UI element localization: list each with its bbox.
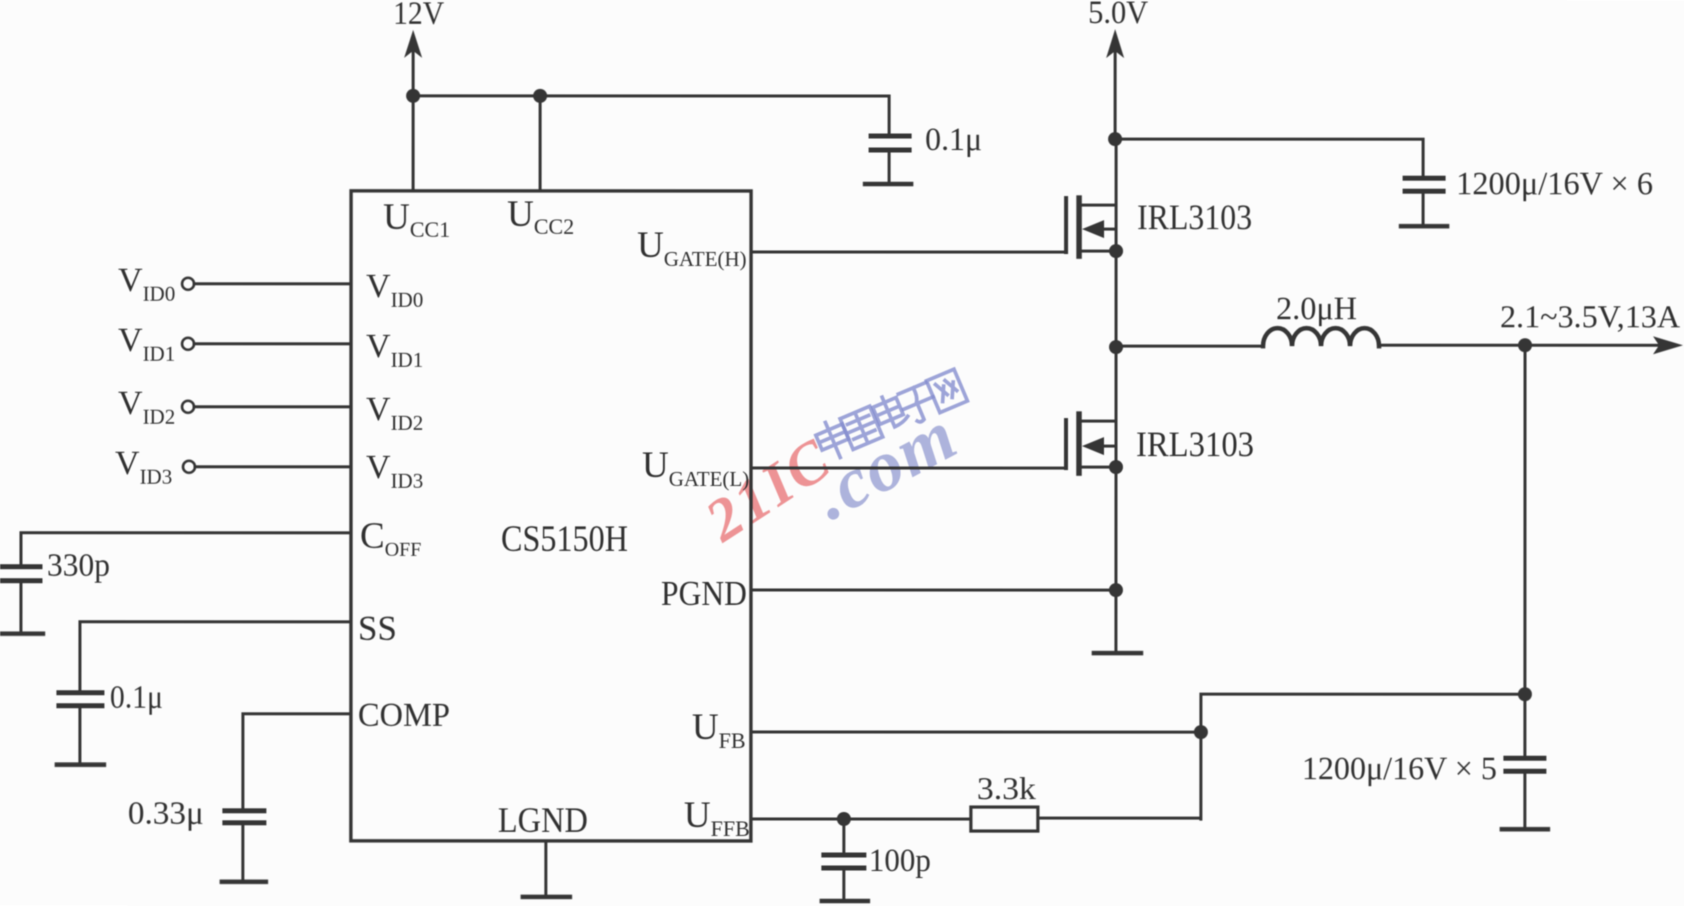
12V arrowhead [404, 30, 422, 58]
wire output node down [1523, 345, 1526, 757]
svg-text:0.33μ: 0.33μ [128, 796, 204, 832]
svg-text:VID2: VID2 [118, 385, 175, 429]
svg-text:VID2: VID2 [366, 391, 423, 435]
wire UGATE(L) to Q2 gate [751, 466, 1066, 469]
terminal circle VID1 [182, 338, 194, 350]
transistor Q1 body stub with arrow [1098, 228, 1116, 231]
capacitor C3 end bar [1502, 827, 1548, 832]
transistor Q2 body stub with arrow [1098, 445, 1116, 448]
svg-text:VID1: VID1 [366, 328, 423, 372]
svg-text:.com: .com [800, 394, 970, 535]
capacitor C1 lower lead [888, 152, 891, 182]
svg-text:100p: 100p [869, 843, 931, 879]
transistor Q1 drain stub [1080, 204, 1116, 207]
transistor Q1 gate bar [1064, 198, 1068, 252]
svg-text:VID3: VID3 [115, 445, 172, 489]
capacitor C3 1200u/16Vx5 plates [1506, 756, 1544, 761]
svg-text:COMP: COMP [358, 697, 450, 734]
capacitor C7 lower lead [842, 870, 845, 899]
IC U1 CS5150H body [351, 191, 751, 841]
svg-text:VID1: VID1 [118, 322, 175, 366]
capacitor C7 end bar [822, 899, 868, 904]
junction dot output node [1518, 338, 1532, 352]
svg-text:SS: SS [358, 609, 397, 648]
resistor R1 3.3k [971, 807, 1038, 831]
capacitor C2 lower lead [1422, 193, 1425, 224]
watermark .com [800, 394, 970, 535]
ground bar LGND [523, 895, 570, 900]
capacitor C4 lower lead [19, 583, 22, 632]
transistor Q1 IRL3103 drain-source vertical [1115, 139, 1118, 347]
junction dot 12V/UCC1 [406, 89, 420, 103]
svg-text:UCC1: UCC1 [383, 197, 450, 242]
wire 5V rail to C2 [1115, 139, 1423, 176]
terminal circle VID0 [182, 278, 194, 290]
capacitor C2 end bar [1401, 224, 1447, 229]
junction dot UFB junction [1194, 725, 1208, 739]
capacitor C7 100p plates [824, 852, 864, 857]
capacitor C2 1200u/16Vx6 plates [1405, 176, 1443, 181]
svg-text:UCC2: UCC2 [507, 194, 574, 239]
wire UFB [751, 730, 1201, 733]
svg-text:IRL3103: IRL3103 [1136, 424, 1254, 464]
svg-text:UGATE(L): UGATE(L) [642, 445, 749, 491]
ground bar power ground [1094, 651, 1141, 656]
svg-text:VID0: VID0 [118, 262, 175, 306]
output arrowhead [1653, 336, 1683, 354]
svg-text:UFFB: UFFB [684, 795, 750, 841]
capacitor C5 end bar [57, 762, 104, 767]
junction dot UFFB/100p [837, 812, 851, 826]
svg-text:12V: 12V [393, 0, 444, 32]
junction dot PGND node [1109, 583, 1123, 597]
transistor Q2 IRL3103 drain-source vertical [1114, 347, 1117, 652]
capacitor C5 lower lead [78, 708, 81, 763]
svg-text:1200μ/16V × 6: 1200μ/16V × 6 [1456, 166, 1653, 202]
transistor Q2 drain stub [1080, 420, 1116, 423]
capacitor C4 end bar [0, 631, 43, 636]
terminal circle VID3 [183, 461, 195, 473]
svg-text:0.1μ: 0.1μ [110, 680, 163, 716]
wire UCC1 stub [412, 96, 415, 191]
capacitor C3 lower lead [1523, 773, 1526, 827]
wire R1 to feedback [1038, 817, 1201, 820]
svg-text:VID0: VID0 [366, 268, 423, 312]
junction dot output/feedback [1518, 687, 1532, 701]
transistor Q2 source stub [1081, 466, 1116, 469]
wire 12V rail [413, 94, 889, 97]
wire VID1 [194, 342, 351, 345]
wire inductor to output [1379, 344, 1658, 347]
junction dot 5V node [1108, 132, 1122, 146]
capacitor C6 end bar [222, 880, 266, 885]
capacitor C4 330p plates [2, 564, 40, 569]
svg-text:VID3: VID3 [366, 449, 423, 493]
wire VID3 [195, 465, 351, 468]
svg-text:UFB: UFB [692, 707, 746, 753]
wire SS [80, 622, 351, 691]
capacitor C1 end bar [865, 182, 911, 187]
wire 12V arrow stem [412, 42, 415, 96]
svg-text:CS5150H: CS5150H [501, 519, 628, 560]
capacitor C6 0.33u plates [225, 808, 264, 813]
capacitor C7 100p top lead [842, 819, 845, 853]
capacitor C6 lower lead [241, 825, 244, 880]
svg-text:2.0μH: 2.0μH [1276, 291, 1357, 327]
junction dot Q2 source/body [1109, 460, 1123, 474]
svg-text:3.3k: 3.3k [977, 770, 1036, 806]
watermark 21IC [693, 425, 843, 555]
transistor Q2 channel bar [1076, 414, 1082, 473]
wire VID2 [194, 405, 351, 408]
svg-text:2.1~3.5V,13A: 2.1~3.5V,13A [1500, 298, 1680, 334]
junction dot switch node [1109, 340, 1123, 354]
svg-text:UGATE(H): UGATE(H) [637, 225, 747, 271]
svg-text:IRL3103: IRL3103 [1137, 197, 1252, 237]
junction dot UCC2 [533, 89, 547, 103]
capacitor C1 0.1u plates [871, 134, 909, 139]
wire COFF [21, 533, 351, 565]
wire UCC2 stub [539, 96, 542, 191]
terminal circle VID2 [182, 401, 194, 413]
svg-text:COFF: COFF [360, 516, 421, 561]
svg-text:1200μ/16V × 5: 1200μ/16V × 5 [1302, 751, 1497, 787]
watermark 中国电子网 [812, 367, 968, 463]
transistor Q2 gate bar [1064, 420, 1068, 468]
svg-text:0.1μ: 0.1μ [925, 122, 982, 158]
capacitor C1 0.1u top lead [888, 96, 891, 134]
junction dot Q1 source/body [1109, 244, 1123, 258]
capacitor C5 0.1u plates [59, 690, 102, 695]
wire UFFB [751, 817, 971, 820]
wire COMP [243, 714, 351, 809]
5.0V arrowhead [1106, 29, 1124, 58]
wire switch node to inductor [1116, 345, 1263, 348]
svg-text:5.0V: 5.0V [1088, 0, 1148, 31]
inductor L1 2.0uH [1263, 328, 1379, 346]
svg-text:330p: 330p [47, 548, 110, 584]
transistor Q1 channel bar [1076, 198, 1082, 256]
wire LGND [544, 841, 547, 896]
wire PGND [751, 588, 1116, 591]
wire feedback horizontal [1201, 694, 1525, 819]
wire VID0 [194, 282, 351, 285]
svg-text:LGND: LGND [498, 800, 588, 840]
wire 5.0V arrow stem [1114, 42, 1117, 139]
wire UGATE(H) to Q1 gate [751, 250, 1066, 253]
svg-text:PGND: PGND [661, 574, 747, 613]
transistor Q1 source stub [1081, 250, 1116, 253]
